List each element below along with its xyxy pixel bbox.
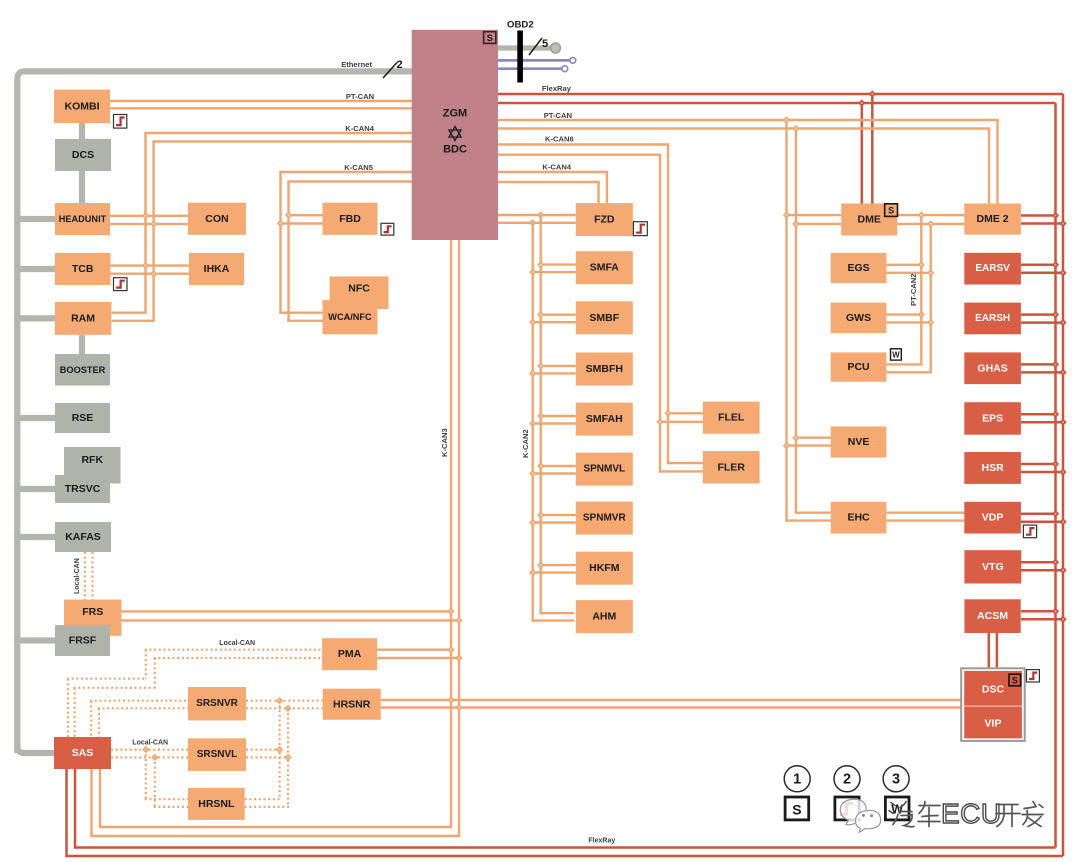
box RAM xyxy=(55,302,112,335)
wire FlexRay stubs HSR xyxy=(1021,463,1056,466)
wire NVE stubs xyxy=(795,437,831,439)
wire Ethernet stub RAM xyxy=(14,315,55,321)
svg-text:FRS: FRS xyxy=(82,606,103,618)
junction K-CAN4 TCB xyxy=(142,262,149,269)
svg-text:HKFM: HKFM xyxy=(589,562,620,574)
box IHKA xyxy=(189,253,244,285)
svg-text:NFC: NFC xyxy=(348,283,370,295)
box TRSVC xyxy=(55,475,110,503)
box NFC xyxy=(330,276,389,309)
wire Local-CAN SAS-PMA dashed path b xyxy=(73,688,75,737)
icon S-symbol DME xyxy=(885,204,898,217)
svg-text:RSE: RSE xyxy=(72,412,94,424)
legend S box xyxy=(785,797,809,820)
box FRSF xyxy=(55,625,110,656)
wire Local-CAN SRSNVL right dashed xyxy=(246,748,281,750)
svg-text:S: S xyxy=(1012,676,1018,686)
wire Local-CAN HRSNL right stubs xyxy=(245,798,281,800)
junction Local-CAN SRSNVL right xyxy=(276,746,283,753)
svg-text:HEADUNIT: HEADUNIT xyxy=(59,214,107,224)
junction FlexRay ACSM xyxy=(1052,608,1059,615)
wire Ethernet stub SAS xyxy=(17,746,54,753)
wire K-CAN2 stubs SMFA xyxy=(540,263,576,265)
box SMBFH xyxy=(576,353,633,386)
wire FLER stubs xyxy=(667,462,703,464)
box VDP xyxy=(964,502,1021,534)
svg-text:SPNMVL: SPNMVL xyxy=(583,464,625,475)
box WCA/NFC xyxy=(323,300,378,334)
junction PT-CAN branch xyxy=(783,116,790,123)
svg-text:FBD: FBD xyxy=(339,213,361,225)
svg-text:K-CAN3: K-CAN3 xyxy=(440,428,449,457)
wire TCB-IHKA pair xyxy=(111,264,189,266)
wire FlexRay SAS vertical b xyxy=(65,769,68,857)
svg-text:HSR: HSR xyxy=(982,462,1005,474)
box FLER xyxy=(703,451,760,484)
wire gray vertical DCS-HEADUNIT xyxy=(79,171,85,203)
wire DME left stubs xyxy=(785,214,841,216)
wire EGS stubs xyxy=(886,264,922,266)
wire FBD stubs xyxy=(287,214,322,216)
svg-text:FlexRay: FlexRay xyxy=(588,838,615,845)
wire RAM pair xyxy=(111,312,146,314)
wire WCA/NFC stubs xyxy=(279,312,322,314)
svg-text:FLEL: FLEL xyxy=(718,412,745,424)
wire Local-CAN right dashed verticals xyxy=(279,701,281,800)
watermark text 汽车ECU开发 xyxy=(889,802,940,827)
wire K-CAN4 left verticals xyxy=(144,133,146,313)
wire Ethernet stub FRSF xyxy=(14,637,55,643)
box PMA xyxy=(322,638,377,670)
svg-text:SAS: SAS xyxy=(72,747,94,759)
svg-text:IHKA: IHKA xyxy=(204,263,230,275)
box EARSV xyxy=(964,253,1021,285)
svg-text:FZD: FZD xyxy=(594,214,615,226)
junction PT-CAN2 top xyxy=(918,211,925,218)
box KOMBI xyxy=(54,90,110,123)
wire ACSM-DSC vertical pair xyxy=(988,633,991,668)
wire Local-CAN HRSNL left stubs xyxy=(145,798,188,800)
svg-text:FlexRay: FlexRay xyxy=(542,84,572,93)
wire PCU stubs xyxy=(886,363,922,365)
svg-text:PMA: PMA xyxy=(338,648,362,660)
wire Local-CAN SAS-PMA dashed path a xyxy=(67,679,69,737)
box KAFAS xyxy=(55,522,111,552)
svg-text:EGS: EGS xyxy=(847,262,869,274)
wire K-CAN2 verticals xyxy=(540,215,542,614)
wire K-CAN5 horizontals xyxy=(279,171,412,173)
wire K-CAN4 right horizontals xyxy=(498,171,608,173)
wire FlexRay stubs GHAS xyxy=(1021,363,1056,366)
junction K-CAN4 HEADUNIT xyxy=(142,212,149,219)
junction PT-CAN NVE xyxy=(792,434,799,441)
icon step-symbol FZD xyxy=(633,222,647,236)
box ZGM/BDC central gateway xyxy=(412,30,498,240)
wire HEADUNIT-CON pair xyxy=(110,215,188,217)
box SMFAH xyxy=(576,403,633,436)
svg-text:ECU: ECU xyxy=(941,798,1002,829)
legend circled 1 xyxy=(784,766,810,792)
wire purple OBD line 2 xyxy=(498,67,563,70)
wire K-CAN6 horizontals xyxy=(498,143,669,145)
svg-text:SMFA: SMFA xyxy=(590,262,620,274)
svg-text:PCU: PCU xyxy=(847,361,869,373)
svg-text:5: 5 xyxy=(542,38,548,50)
wire FlexRay stubs VTG xyxy=(1021,561,1056,564)
wire EHC-VDP pair xyxy=(886,512,964,514)
svg-text:GWS: GWS xyxy=(846,312,871,324)
wire FlexRay vertical to DME a xyxy=(871,94,874,204)
svg-text:3: 3 xyxy=(892,772,900,788)
wire FlexRay bottom line outer xyxy=(67,855,1064,858)
wire FlexRay stubs DME2 xyxy=(1021,214,1056,217)
svg-text:HRSNL: HRSNL xyxy=(198,798,235,810)
junction FlexRay DME2 xyxy=(1052,212,1059,219)
junction K-CAN2 SPNMVL xyxy=(537,462,544,469)
wire K-CAN4 left horizontals xyxy=(144,132,412,134)
junction K-CAN2 SMFA xyxy=(537,261,544,268)
junction PT-CAN2 GWS xyxy=(918,311,925,318)
wire Ethernet stub TRSVC xyxy=(14,486,55,492)
box HRSNL xyxy=(188,788,245,820)
box SAS xyxy=(54,737,111,769)
svg-text:HRSNR: HRSNR xyxy=(333,698,371,710)
wire PMA pair xyxy=(377,649,452,651)
wire gray vertical KOMBI-DCS xyxy=(79,123,85,139)
svg-text:CON: CON xyxy=(205,213,228,225)
svg-text:S: S xyxy=(888,206,894,216)
wire K-CAN4 right verticals into FZD xyxy=(606,172,608,203)
svg-text:Local-CAN: Local-CAN xyxy=(219,640,255,647)
svg-text:PT-CAN: PT-CAN xyxy=(346,92,374,101)
box HSR xyxy=(964,452,1021,484)
legend circled 3 xyxy=(883,766,909,792)
svg-text:BDC: BDC xyxy=(443,144,467,156)
junction K-CAN3 FRS xyxy=(447,608,454,615)
junction K-CAN3 PMA xyxy=(447,646,454,653)
wire K-CAN2 stubs SPNMVL xyxy=(540,465,576,467)
wire gray vertical RAM-BOOSTER xyxy=(79,335,85,354)
svg-text:SRSNVL: SRSNVL xyxy=(197,749,238,760)
svg-text:Local-CAN: Local-CAN xyxy=(74,558,81,594)
box EPS xyxy=(964,402,1021,435)
wire Ethernet stub HEADUNIT xyxy=(14,216,55,222)
box PCU xyxy=(831,352,887,381)
box CON xyxy=(188,203,246,235)
wire PT-CAN branch verticals xyxy=(785,120,787,522)
svg-text:K-CAN4: K-CAN4 xyxy=(542,163,571,172)
svg-text:Local-CAN: Local-CAN xyxy=(132,740,168,747)
svg-text:K-CAN6: K-CAN6 xyxy=(545,135,574,144)
svg-text:PT-CAN2: PT-CAN2 xyxy=(909,274,918,307)
svg-text:FRSF: FRSF xyxy=(69,635,97,647)
box FBD xyxy=(323,203,378,235)
wire Local-CAN SAS-SRSNVL dashed xyxy=(111,748,188,750)
icon W-symbol PCU xyxy=(891,349,902,360)
junction Local-CAN right verticals top xyxy=(276,697,283,704)
svg-text:VIP: VIP xyxy=(985,718,1002,730)
box ACSM xyxy=(964,599,1020,633)
svg-text:DCS: DCS xyxy=(72,149,94,161)
box HKFM xyxy=(576,552,633,585)
svg-text:SPNMVR: SPNMVR xyxy=(583,513,627,524)
svg-text:VDP: VDP xyxy=(982,512,1004,524)
box AHM xyxy=(576,600,633,633)
junction FlexRay EARSV xyxy=(1052,261,1059,268)
svg-text:Ethernet: Ethernet xyxy=(341,60,372,69)
svg-text:GHAS: GHAS xyxy=(977,362,1007,374)
wire K-CAN2 stubs SMBF xyxy=(540,314,576,316)
wire PT-CAN right verticals into DME2 xyxy=(996,120,998,204)
svg-text:S: S xyxy=(792,801,801,817)
wire FlexRay top line A xyxy=(498,93,1063,96)
wire HRSNR-DSC pair xyxy=(381,699,962,701)
svg-text:EHC: EHC xyxy=(847,512,870,524)
wire GWS stubs xyxy=(886,313,922,315)
legend circled 2 xyxy=(834,766,860,792)
legend W box xyxy=(885,797,909,820)
svg-text:SMBF: SMBF xyxy=(589,312,619,324)
wire K-CAN2 stubs SMBFH xyxy=(540,365,576,367)
wire Local-CAN SAS-SRSNVR dashed a xyxy=(90,701,92,737)
svg-text:SMFAH: SMFAH xyxy=(586,413,623,425)
junction Local-CAN SAS-SRSNVL xyxy=(142,746,149,753)
junction FlexRay EARSH xyxy=(1052,311,1059,318)
box SPNMVL xyxy=(576,453,633,486)
box RSE xyxy=(55,403,110,433)
wire PT-CAN2 verticals xyxy=(920,215,922,366)
svg-text:OBD2: OBD2 xyxy=(507,20,534,31)
box EGS xyxy=(831,253,887,283)
box SPNMVR xyxy=(576,502,633,535)
slash mark and count 2 (Ethernet) xyxy=(383,63,397,79)
svg-text:ZGM: ZGM xyxy=(443,108,467,120)
icon step-symbol TCB xyxy=(114,278,128,291)
box DCS xyxy=(55,139,111,171)
wire EHC stubs xyxy=(795,512,831,514)
icon step-symbol FBD xyxy=(381,223,394,235)
svg-text:2: 2 xyxy=(397,59,403,71)
svg-text:KOMBI: KOMBI xyxy=(65,100,100,112)
svg-text:S: S xyxy=(487,33,493,43)
box EARSH xyxy=(964,303,1021,335)
box SRSNVL xyxy=(188,738,246,771)
svg-text:PT-CAN: PT-CAN xyxy=(544,111,572,120)
wire K-CAN6 verticals xyxy=(667,145,669,465)
svg-text:EPS: EPS xyxy=(982,412,1003,424)
svg-text:TCB: TCB xyxy=(72,263,94,275)
svg-text:WCA/NFC: WCA/NFC xyxy=(328,312,372,322)
box DME 2 xyxy=(964,204,1021,235)
svg-text:SRSNVR: SRSNVR xyxy=(196,698,238,709)
svg-text:KAFAS: KAFAS xyxy=(65,531,101,543)
icon S-symbol DSC xyxy=(1009,674,1021,686)
box FLEL xyxy=(703,402,760,434)
wire K-CAN2 stubs SPNMVR xyxy=(540,514,576,516)
junction K-CAN2 SMBFH xyxy=(537,362,544,369)
wire PT-CAN left pair KOMBI-ZGM xyxy=(110,100,412,102)
box GWS xyxy=(831,303,887,333)
box TCB xyxy=(55,253,111,285)
svg-text:K-CAN5: K-CAN5 xyxy=(344,163,373,172)
svg-text:SMBFH: SMBFH xyxy=(586,363,623,375)
box BOOSTER xyxy=(55,354,110,386)
junction FlexRay VDP xyxy=(1052,510,1059,517)
wire K-CAN5 verticals xyxy=(279,172,281,313)
svg-text:DME: DME xyxy=(858,214,881,226)
box SMBF xyxy=(576,301,633,334)
junction K-CAN2 FZD xyxy=(537,211,544,218)
svg-text:TRSVC: TRSVC xyxy=(65,483,101,495)
wire FlexRay stubs EARSV xyxy=(1021,264,1056,267)
slash mark and count 5 xyxy=(529,38,542,55)
svg-text:RFK: RFK xyxy=(81,454,103,466)
icon step-symbol VDP xyxy=(1023,525,1036,538)
wire K-CAN3 SAS verticals xyxy=(99,769,101,827)
wire Ethernet stub KAFAS xyxy=(14,534,55,540)
box FZD xyxy=(576,203,633,236)
wire K-CAN3 verticals xyxy=(450,240,452,828)
wire Ethernet vertical trunk left xyxy=(17,71,412,753)
svg-text:K-CAN4: K-CAN4 xyxy=(345,124,374,133)
junction K-CAN6 FLEL xyxy=(664,410,671,417)
wire FlexRay stubs VDP xyxy=(1021,513,1056,516)
junction FlexRay VTG xyxy=(1052,559,1059,566)
wire Local-CAN HRSNL left verticals xyxy=(145,750,147,800)
wire FlexRay top line B xyxy=(498,102,1056,105)
svg-text:FLER: FLER xyxy=(717,461,745,473)
wire FlexRay bottom line inner xyxy=(75,846,1056,849)
box SMFA xyxy=(576,251,633,284)
svg-text:EARSV: EARSV xyxy=(975,263,1010,274)
box FRS xyxy=(64,600,122,636)
svg-text:DME 2: DME 2 xyxy=(977,213,1009,225)
icon S-symbol ZGM xyxy=(484,32,496,44)
wire FlexRay stubs EARSH xyxy=(1021,313,1056,316)
junction K-CAN3 HRSNR xyxy=(447,696,454,703)
junction K-CAN5 FBD xyxy=(285,212,292,219)
junction FlexRay-DME xyxy=(869,90,876,97)
wire K-CAN2 stubs HKFM xyxy=(540,564,576,566)
wire purple OBD line 1 xyxy=(498,59,571,62)
box NVE xyxy=(831,427,887,458)
svg-text:ACSM: ACSM xyxy=(977,610,1008,622)
svg-text:RAM: RAM xyxy=(71,312,95,324)
svg-text:AHM: AHM xyxy=(592,611,616,623)
box RFK xyxy=(64,447,121,484)
svg-text:2: 2 xyxy=(843,772,851,788)
wire FlexRay right vertical outer xyxy=(1062,94,1065,856)
box EHC xyxy=(831,502,887,534)
junction K-CAN2 HKFM xyxy=(537,561,544,568)
box GHAS xyxy=(964,352,1021,384)
junction FlexRay HSR xyxy=(1052,460,1059,467)
wire FlexRay stubs ACSM xyxy=(1021,610,1056,613)
svg-text:DSC: DSC xyxy=(982,684,1005,696)
wire FlexRay right vertical inner xyxy=(1054,103,1057,848)
wire FlexRay SAS vertical a xyxy=(74,769,77,849)
junction FlexRay GHAS xyxy=(1052,361,1059,368)
box SRSNVR xyxy=(188,687,246,720)
wire FRS pair xyxy=(122,610,453,612)
watermark wechat logo xyxy=(840,799,880,832)
wire K-CAN2 stubs AHM xyxy=(540,612,575,614)
wire FlexRay stubs EPS xyxy=(1021,413,1056,416)
junction PT-CAN2 EGS xyxy=(918,261,925,268)
junction K-CAN2 SMBF xyxy=(537,311,544,318)
wire FlexRay vertical to DME b xyxy=(861,103,864,204)
svg-text:EARSH: EARSH xyxy=(975,313,1010,324)
wire K-CAN2 start FZD stubs xyxy=(498,214,576,216)
svg-text:1: 1 xyxy=(793,772,801,788)
wire K-CAN3 bottom pair xyxy=(99,826,451,828)
svg-text:NVE: NVE xyxy=(848,436,870,448)
wire Ethernet OBD stub + connector circle xyxy=(498,45,553,50)
svg-text:W: W xyxy=(892,351,900,360)
box DSC/VIP module xyxy=(961,668,1024,741)
box HEADUNIT xyxy=(55,203,110,235)
wire Local-CAN KAFAS-FRS dashed pair xyxy=(84,552,86,600)
wire Ethernet stub TCB xyxy=(14,266,55,272)
junction PT-CAN DME xyxy=(783,211,790,218)
junction FlexRay EPS xyxy=(1052,411,1059,418)
svg-text:VTG: VTG xyxy=(982,561,1004,573)
wire DME-DME2 pair xyxy=(897,214,964,216)
wire PT-CAN right horizontals xyxy=(498,119,999,121)
box VTG xyxy=(964,550,1021,583)
svg-text:BOOSTER: BOOSTER xyxy=(60,365,106,375)
OBD2 connector bar xyxy=(517,31,523,83)
icon step-symbol KOMBI xyxy=(114,115,127,129)
legend step box xyxy=(835,797,859,820)
wire Local-CAN SAS-SRSNVR dashed b xyxy=(98,708,100,737)
box DME xyxy=(841,204,897,236)
box HRSNR xyxy=(323,689,381,720)
junction K-CAN2 SMFAH xyxy=(537,412,544,419)
wire Ethernet stub RSE xyxy=(14,415,55,421)
junction K-CAN2 SPNMVR xyxy=(537,511,544,518)
svg-text:K-CAN2: K-CAN2 xyxy=(521,429,530,458)
wire FLEL stubs xyxy=(667,412,703,414)
icon step-symbol DSC-group xyxy=(1027,670,1040,682)
wire K-CAN2 stubs SMFAH xyxy=(540,415,576,417)
wire Local-CAN SRSNVR-HRSNR dashed xyxy=(246,700,323,702)
